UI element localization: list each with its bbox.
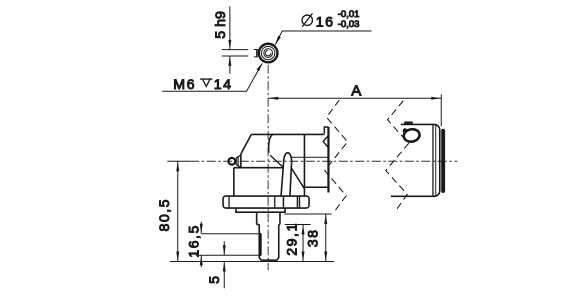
dimension 29,1: dimension line — [302, 225, 304, 262]
connector ring line 1 — [432, 125, 434, 196]
grease nipple cone — [236, 155, 241, 167]
dimension 16,5: arrow down — [200, 224, 203, 234]
connector top tab — [404, 121, 413, 124]
shaft shoulder — [257, 212, 280, 224]
dimension 16,5: dimension line upper — [200, 222, 202, 234]
connector window ellipse — [403, 128, 421, 143]
top view: flat edge ticks — [254, 49, 258, 56]
flange outline — [223, 196, 309, 208]
shaft left edge — [259, 225, 261, 261]
loop right side — [290, 163, 292, 196]
housing inner diagonal — [270, 155, 283, 167]
dimension 80,5: top arrow — [176, 161, 179, 171]
shaft right edge — [277, 225, 279, 261]
dimension 5: arrow up — [223, 262, 226, 272]
dimension A: dimension line — [268, 97, 441, 99]
dimension 80,5: dimension line — [177, 161, 179, 261]
dimension 80,5: top extension line — [167, 160, 190, 162]
dimension 5: dimension line lower — [223, 262, 225, 289]
dimension 5 h9: dimension line lower part — [229, 56, 231, 74]
housing top edge — [251, 133, 324, 135]
dimension 29,1: top arrow — [302, 225, 305, 235]
dimension 5 h9: extension lines — [222, 50, 249, 56]
dimension 16,5: arrow up — [200, 255, 203, 265]
top view: inner circle 1 — [261, 46, 274, 59]
extension line shoulder bottom right — [285, 224, 311, 226]
flange inner line 1 — [274, 196, 276, 208]
svg-text:29,1: 29,1 — [284, 222, 300, 256]
shaft end edge — [261, 259, 277, 261]
flange left inner line — [228, 196, 230, 208]
svg-text:16: 16 — [316, 14, 335, 30]
step below flange — [236, 208, 285, 212]
svg-text:5 h9: 5 h9 — [213, 11, 229, 39]
dimension A: right extension line — [440, 94, 442, 126]
dimension 5 h9: arrow up (tip y=55.8) — [228, 56, 231, 66]
svg-text:16,5: 16,5 — [187, 224, 203, 258]
svg-text:M6: M6 — [173, 77, 196, 93]
neck bottom edge — [304, 186, 328, 188]
label dia16: diameter symbol — [302, 13, 312, 27]
body left edge — [233, 168, 235, 196]
svg-text:-0,03: -0,03 — [338, 19, 360, 30]
housing right edge — [303, 134, 305, 196]
dimension A: right arrow — [431, 97, 441, 100]
dimension 80,5: bottom arrow — [176, 252, 179, 262]
dimension 5: dimension line upper — [223, 241, 225, 255]
dimension 29,1: bottom arrow — [302, 252, 305, 262]
label dia16: leader line — [275, 31, 371, 44]
dimension A: left arrow — [268, 97, 278, 100]
neck end bold right edge — [327, 127, 329, 192]
loop top arc — [284, 153, 292, 163]
extension line flat bottom — [196, 254, 260, 256]
horizontal centerline (cable outlet axis) — [190, 160, 457, 162]
dimension 5 h9: arrow down (tip y=49.4) — [228, 40, 231, 50]
extension line flat top — [202, 233, 260, 235]
dimension 38: top arrow — [324, 214, 327, 224]
dimension 16,5: dimension line lower — [200, 255, 202, 267]
svg-text:14: 14 — [214, 77, 233, 93]
neck end lip top — [324, 127, 328, 134]
diagonal to housing corner — [291, 168, 304, 189]
vertical centerline (shaft axis) — [267, 65, 269, 271]
connector body outline — [391, 124, 440, 196]
svg-text:38: 38 — [305, 228, 321, 247]
housing inner bend curve — [269, 134, 273, 153]
dimension 38: bottom arrow — [324, 252, 327, 262]
bottom long extension line — [170, 261, 335, 263]
svg-text:A: A — [351, 82, 361, 99]
label dia16: leader arrowhead — [275, 36, 281, 46]
break zigzag left — [325, 100, 348, 212]
top view: inner circle 2 — [264, 49, 273, 58]
label M6 depth 14: leader arrowhead — [256, 62, 262, 71]
grease nipple ball — [228, 158, 235, 165]
svg-text:5: 5 — [207, 276, 223, 284]
body top edge — [234, 167, 284, 169]
housing sloped left edge — [241, 134, 251, 154]
flange inner line 3 — [296, 196, 298, 208]
connector window dot — [403, 128, 408, 133]
connector bold end bar — [441, 131, 445, 191]
connector ring line 2 — [435, 125, 437, 195]
label M6 depth 14: depth symbol — [200, 79, 212, 86]
top view: thread circle (M6, 3/4 arc) — [265, 50, 271, 56]
loop left side — [281, 163, 284, 196]
dimension 5 h9: dimension line upper part — [229, 6, 231, 49]
grease nipple base vertical — [240, 154, 242, 167]
dimension 38: dimension line — [325, 214, 327, 262]
extension line shoulder top right — [284, 213, 331, 215]
dimension 5: arrow down — [223, 245, 226, 255]
flange right inner line — [299, 196, 301, 208]
top view: shaft flat chord — [256, 49, 258, 56]
label M6 depth 14: leader line — [162, 64, 262, 92]
flange inner line 2 — [282, 196, 284, 208]
neck surface line — [292, 156, 328, 158]
neck end break notch — [323, 136, 328, 148]
svg-text:80,5: 80,5 — [157, 198, 173, 232]
break zigzag right — [386, 101, 409, 212]
shaft flat edge — [259, 234, 261, 256]
top view: shaft end outer circle (dia 16) — [259, 44, 278, 63]
